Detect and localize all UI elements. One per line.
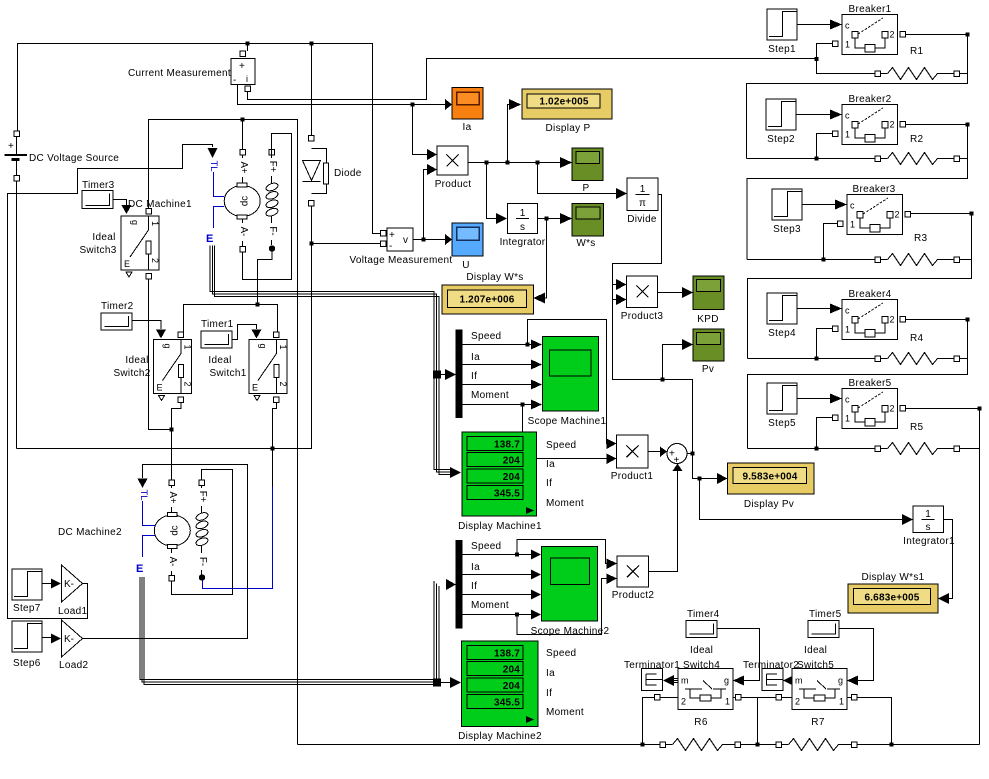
svg-text:Step6: Step6 bbox=[13, 658, 41, 669]
port Breaker1 out bbox=[900, 32, 906, 38]
svg-text:R4: R4 bbox=[910, 333, 924, 344]
svg-text:Scope Machine1: Scope Machine1 bbox=[528, 416, 607, 427]
label F+ machine1 bbox=[266, 158, 278, 176]
svg-text:1: 1 bbox=[925, 509, 931, 520]
svg-text:Pv: Pv bbox=[702, 364, 714, 375]
display block Display Machine1 bbox=[462, 432, 537, 516]
signal bundle machine1 down to display1 bbox=[434, 379, 450, 475]
wire Step3 to Breaker3 bbox=[802, 204, 835, 206]
label demux1 Ia bbox=[471, 352, 480, 363]
wire bundle up to demux2 bbox=[434, 581, 450, 683]
wire Switch5 port1 to bus bbox=[847, 698, 892, 745]
step block Step6 bbox=[12, 621, 42, 652]
label A+ machine2 bbox=[166, 488, 178, 507]
label E machine2 bbox=[136, 563, 143, 575]
svg-text:204: 204 bbox=[503, 681, 521, 692]
wire blue field return machine2 bbox=[203, 487, 273, 589]
wire Timer4 to Switch4 g bbox=[717, 629, 760, 681]
svg-text:If: If bbox=[546, 688, 552, 699]
port Breaker5 out bbox=[900, 406, 906, 412]
demux1 output wire Ia bbox=[463, 364, 532, 366]
arrow into Product1 in1 bbox=[607, 439, 617, 450]
port switch2 port1 bbox=[178, 332, 184, 338]
wire Step7 to Load1 bbox=[42, 583, 51, 585]
label Timer1 bbox=[201, 319, 234, 330]
wire down to Display Ws bbox=[542, 219, 547, 299]
scope block Pv bbox=[693, 329, 724, 361]
node junction A+ tap machine1 bbox=[241, 118, 245, 122]
arrow into sum left bbox=[660, 447, 667, 458]
wire Breaker4 out loop to row5 bbox=[748, 320, 968, 449]
svg-text:Ideal: Ideal bbox=[690, 645, 713, 656]
signal bundle machine1 m output bbox=[210, 246, 439, 371]
node junction sum out bbox=[691, 452, 695, 456]
svg-text:A+: A+ bbox=[167, 491, 178, 503]
svg-text:Ia: Ia bbox=[471, 352, 480, 363]
wire bundle to demux1 bbox=[441, 374, 446, 376]
label demux2 If bbox=[471, 581, 477, 592]
scope block U bbox=[452, 223, 483, 256]
svg-text:F+: F+ bbox=[197, 491, 208, 503]
wire Step4 to Breaker4 bbox=[797, 308, 830, 310]
svg-text:+: + bbox=[389, 230, 395, 241]
svg-text:E: E bbox=[206, 233, 213, 245]
port Switch5 port1 bbox=[852, 695, 858, 701]
label Ia scope bbox=[463, 122, 472, 133]
svg-text:Ideal: Ideal bbox=[125, 355, 148, 366]
label R2 bbox=[910, 134, 924, 145]
voltage measurement block VM bbox=[387, 228, 413, 252]
svg-text:Product1: Product1 bbox=[611, 471, 654, 482]
svg-text:Timer4: Timer4 bbox=[687, 609, 720, 620]
svg-text:If: If bbox=[546, 478, 552, 489]
svg-text:U: U bbox=[462, 260, 470, 271]
svg-text:Step4: Step4 bbox=[768, 328, 796, 339]
scope block KPD bbox=[693, 276, 724, 310]
arrow into Product1 in2 bbox=[607, 454, 617, 465]
svg-text:Timer3: Timer3 bbox=[82, 180, 115, 191]
node junction breaker2 corner bbox=[966, 123, 970, 127]
port Breaker3 out bbox=[905, 212, 911, 218]
label R3 bbox=[914, 233, 928, 244]
svg-text:Ia: Ia bbox=[471, 562, 480, 573]
label Ideal Switch3 bbox=[79, 232, 116, 256]
breaker block Breaker1 bbox=[842, 15, 898, 55]
svg-text:DC Voltage Source: DC Voltage Source bbox=[29, 153, 119, 164]
node junction gate line bbox=[256, 303, 260, 307]
wire Step6 to Load2 bbox=[42, 637, 51, 639]
arrow into Product2 in2 bbox=[607, 574, 618, 585]
label A- machine2 bbox=[166, 553, 178, 571]
resistor R6 bbox=[660, 739, 741, 751]
ideal switch3 bbox=[121, 216, 160, 277]
label col2 Ia machine2 bbox=[546, 668, 555, 679]
wire Moment under scope2 to Product2 in2 bbox=[517, 579, 607, 635]
label Step7 bbox=[13, 603, 41, 614]
label Display Machine2 bbox=[458, 731, 542, 742]
scope block Scope Machine2 bbox=[542, 547, 598, 622]
label Ws scope bbox=[576, 238, 595, 249]
wire gate line to switch1 and switch2 port1 bbox=[184, 305, 278, 332]
wire node vertical Pv branch bbox=[613, 285, 693, 454]
step block Step2 bbox=[766, 99, 796, 130]
port Switch5 port2 bbox=[776, 695, 782, 701]
scope block P bbox=[572, 148, 603, 181]
label col2 Speed machine2 bbox=[546, 648, 576, 659]
label Divide bbox=[627, 214, 657, 225]
node junction CM top on bus bbox=[246, 42, 250, 46]
label demux2 Moment bbox=[471, 600, 509, 611]
label Timer3 bbox=[82, 180, 115, 191]
svg-text:DC Machine1: DC Machine1 bbox=[128, 199, 192, 210]
label Voltage Measurement bbox=[350, 255, 453, 266]
dc machine1 armature circle bbox=[224, 183, 260, 219]
ideal switch2 bbox=[154, 340, 193, 401]
svg-text:Integrator: Integrator bbox=[500, 237, 546, 248]
arrow into Breaker2 c bbox=[830, 110, 842, 120]
wire Switch5 port2 to bus bbox=[758, 697, 793, 699]
svg-text:Timer2: Timer2 bbox=[101, 301, 134, 312]
timer block Timer2 bbox=[101, 313, 132, 330]
svg-text:Speed: Speed bbox=[471, 541, 501, 552]
svg-text:Switch5: Switch5 bbox=[797, 660, 834, 671]
svg-text:Step1: Step1 bbox=[768, 44, 796, 55]
arrow into Product in1 bbox=[427, 149, 437, 160]
svg-text:Load1: Load1 bbox=[58, 606, 87, 617]
arrow into Breaker1 c bbox=[830, 20, 842, 30]
demux2 output wire If bbox=[463, 594, 532, 596]
svg-text:-: - bbox=[389, 241, 393, 252]
svg-text:Ia: Ia bbox=[546, 668, 555, 679]
product block Product bbox=[437, 146, 468, 175]
wire switch3 port2 to machine2 A+ bbox=[149, 279, 172, 481]
demux2 output wire Moment bbox=[463, 614, 532, 616]
wire up to Pv scope bbox=[663, 345, 683, 380]
label TL machine2 bbox=[138, 489, 149, 500]
arrow into Product3 in2 bbox=[616, 294, 627, 305]
arrow into Breaker5 c bbox=[830, 394, 842, 404]
timer block Timer1 bbox=[201, 331, 232, 348]
node F- machine2 dot bbox=[199, 574, 205, 580]
wire Load1 to TL machine1 long loop bbox=[8, 145, 213, 619]
port Switch4 port1 bbox=[736, 695, 742, 701]
wire A+ machine1 stub bbox=[242, 120, 244, 151]
wire down to Integrator bbox=[487, 163, 497, 219]
arrow into KPD bbox=[682, 287, 693, 298]
svg-text:+: + bbox=[674, 455, 680, 466]
divide block Divide bbox=[627, 178, 658, 211]
label Timer5 bbox=[809, 609, 842, 620]
svg-text:Terminator2: Terminator2 bbox=[743, 660, 799, 671]
port Breaker4 out bbox=[900, 317, 906, 323]
wire Product2 out to sum bottom bbox=[649, 471, 678, 572]
svg-text:A-: A- bbox=[238, 227, 249, 237]
wire bottom bus left segment bbox=[298, 744, 661, 746]
node junction breaker2 chain bbox=[815, 157, 819, 161]
label Pv bbox=[702, 364, 714, 375]
svg-text:Timer1: Timer1 bbox=[201, 319, 234, 330]
wire Breaker5 port1 bbox=[817, 418, 833, 449]
label Terminator2 bbox=[743, 660, 799, 671]
step block Step5 bbox=[767, 383, 797, 414]
node junction VM out tap bbox=[422, 238, 426, 242]
svg-text:Step7: Step7 bbox=[13, 603, 41, 614]
svg-text:R7: R7 bbox=[811, 717, 825, 728]
port A+ machine1 bbox=[240, 150, 246, 156]
label Terminator1 bbox=[624, 660, 680, 671]
svg-text:R5: R5 bbox=[910, 422, 924, 433]
wire Product1 out to sum bbox=[648, 451, 660, 453]
label E machine1 bbox=[206, 233, 213, 245]
wire Breaker5 out down right edge bbox=[906, 409, 980, 745]
wire machine1 top bus A+ feed bbox=[149, 120, 298, 745]
wire Breaker2 out loop to row3 bbox=[747, 125, 968, 260]
arrow into Display Machine1 bbox=[450, 467, 461, 478]
node junction breaker3 chain bbox=[822, 258, 826, 262]
svg-text:s: s bbox=[926, 522, 931, 533]
svg-text:Load2: Load2 bbox=[59, 660, 88, 671]
step block Step1 bbox=[767, 9, 797, 40]
label R1 bbox=[910, 46, 924, 57]
step block Step7 bbox=[12, 569, 42, 600]
arrow into Pv scope bbox=[682, 339, 693, 350]
arrow into Load2 bbox=[51, 634, 61, 644]
node junction Pv tap bbox=[661, 378, 665, 382]
label TL machine1 bbox=[208, 160, 219, 171]
wire chain row2 horizontal bbox=[747, 158, 875, 160]
port A- machine1 bbox=[240, 247, 246, 253]
svg-text:Switch3: Switch3 bbox=[79, 245, 116, 256]
label Display Ws title bbox=[466, 272, 523, 283]
field coil machine1 bbox=[265, 155, 279, 246]
timer block Timer4 bbox=[686, 621, 717, 638]
product block Product1 bbox=[617, 435, 649, 468]
svg-text:204: 204 bbox=[503, 472, 521, 483]
timer block Timer3 bbox=[82, 191, 113, 209]
svg-text:DC Machine2: DC Machine2 bbox=[58, 527, 122, 538]
label Step1 bbox=[768, 44, 796, 55]
wire Timer1 to Switch1 gate bbox=[232, 325, 257, 340]
label col2 If machine2 bbox=[546, 688, 552, 699]
wire bottom bus mid segment bbox=[741, 744, 777, 746]
label KPD bbox=[697, 314, 718, 325]
ideal switch5 bbox=[792, 669, 847, 710]
wire Step2 to Breaker2 bbox=[796, 114, 830, 116]
arrow into Integrator1 bbox=[902, 514, 913, 525]
wire node down to Display Pv bbox=[693, 454, 718, 479]
display block Display Ws bbox=[442, 285, 534, 314]
wire Timer2 to Switch2 gate bbox=[132, 321, 161, 330]
port F+ machine2 bbox=[199, 480, 205, 486]
svg-text:138.7: 138.7 bbox=[494, 440, 520, 451]
label R5 bbox=[910, 422, 924, 433]
node junction Display Ws tap bbox=[545, 217, 549, 221]
port Breaker4 port1 bbox=[833, 326, 839, 332]
svg-text:Speed: Speed bbox=[546, 648, 576, 659]
label col2 Ia machine1 bbox=[546, 459, 555, 470]
label Step4 bbox=[768, 328, 796, 339]
wire A+ into circle bbox=[242, 155, 244, 184]
node junction switch5 port1 bus bbox=[890, 743, 894, 747]
wire switch1 port2 down to bus and machine2 field bbox=[273, 403, 277, 487]
wire node to Integrator1 bbox=[700, 479, 903, 520]
wire Switch4 port2 to bus bbox=[643, 698, 679, 745]
wire Breaker3 port1 bbox=[824, 224, 838, 260]
svg-text:Ia: Ia bbox=[463, 122, 472, 133]
label Display Pv bbox=[744, 499, 794, 510]
svg-text:R6: R6 bbox=[694, 717, 708, 728]
arrow into Switch3 g bbox=[122, 205, 132, 214]
wire sum out to node bbox=[687, 453, 693, 455]
label Integrator1 bbox=[903, 536, 955, 547]
arrow into Breaker3 c bbox=[835, 200, 847, 210]
wire Breaker3 out loop to row4 bbox=[748, 214, 972, 359]
svg-text:Display W*s: Display W*s bbox=[466, 272, 523, 283]
svg-text:Divide: Divide bbox=[627, 214, 657, 225]
wire Switch4 port1 to bus bbox=[733, 698, 758, 745]
svg-text:TL: TL bbox=[138, 489, 149, 500]
demux1 output wire If bbox=[463, 384, 532, 386]
arrow into Display Ws right side bbox=[534, 293, 546, 304]
arrow into Ws scope bbox=[560, 213, 572, 224]
svg-text:Moment: Moment bbox=[471, 390, 509, 401]
svg-text:Moment: Moment bbox=[546, 707, 584, 718]
node junction diode top on bus bbox=[310, 42, 314, 46]
wire Product3 out to KPD bbox=[658, 292, 682, 294]
port switch1 port2 bbox=[274, 397, 280, 403]
port Switch4 port2 bbox=[654, 695, 660, 701]
wire Step5 to Breaker5 bbox=[797, 398, 830, 400]
resistor R7 bbox=[776, 739, 857, 751]
gain block Load2 bbox=[62, 620, 83, 657]
node junction Integrator tap bbox=[485, 161, 489, 165]
breaker block Breaker5 bbox=[842, 389, 898, 429]
svg-text:F+: F+ bbox=[267, 161, 278, 173]
wire VM minus input bbox=[312, 243, 382, 245]
label Scope Machine1 bbox=[528, 416, 607, 427]
scope block Ia bbox=[452, 88, 483, 120]
wire blue E bracket machine1 bbox=[214, 207, 225, 229]
svg-text:A+: A+ bbox=[238, 161, 249, 173]
wire Switch4 m to Terminator1 bbox=[663, 675, 678, 686]
arrow into Product in2 bbox=[427, 164, 437, 175]
svg-text:Breaker3: Breaker3 bbox=[853, 184, 896, 195]
arrow into Breaker4 c bbox=[830, 304, 842, 314]
label A- machine1 bbox=[237, 223, 249, 241]
port Breaker1 port1 bbox=[833, 41, 839, 47]
svg-text:TL: TL bbox=[208, 160, 219, 171]
breaker block Breaker3 bbox=[847, 195, 903, 235]
node junction switch2 port2 meet bbox=[170, 428, 174, 432]
port diode top bbox=[309, 136, 315, 142]
label F- machine1 bbox=[266, 223, 278, 240]
svg-text:i: i bbox=[246, 74, 248, 84]
svg-text:Step3: Step3 bbox=[773, 224, 801, 235]
port A- machine2 bbox=[169, 576, 175, 582]
label demux1 Moment bbox=[471, 390, 509, 401]
product block Product2 bbox=[617, 556, 649, 587]
port DC source bottom bbox=[14, 176, 20, 182]
port Breaker5 port1 bbox=[833, 415, 839, 421]
label col2 Moment machine2 bbox=[546, 707, 584, 718]
arrow into demux2 bbox=[446, 579, 456, 590]
ideal switch1 bbox=[249, 340, 288, 401]
port switch3 port1 bbox=[146, 209, 152, 215]
demux2 output wire Speed bbox=[463, 554, 532, 556]
node junction switch4 port2 bus bbox=[641, 743, 645, 747]
wire VM output to U scope and Product in2 bbox=[413, 239, 445, 241]
arrow into Ia scope bbox=[445, 99, 452, 110]
demux bar machine1 bbox=[456, 330, 463, 419]
display block Display Ws1 bbox=[848, 584, 938, 613]
wire DC source minus down to lower bus bbox=[16, 181, 18, 449]
display block Display P bbox=[522, 89, 612, 119]
node bundle branch blob machine2 bbox=[433, 679, 441, 687]
wire Product3 in2 stub bbox=[613, 299, 617, 301]
port CM top bbox=[240, 51, 246, 57]
wire A- to F+ series link machine2 bbox=[172, 470, 233, 595]
label Integrator bbox=[500, 237, 546, 248]
svg-text:Scope Machine2: Scope Machine2 bbox=[531, 626, 610, 637]
label Breaker3 bbox=[853, 184, 896, 195]
svg-text:Breaker1: Breaker1 bbox=[849, 4, 892, 15]
svg-text:Timer5: Timer5 bbox=[809, 609, 842, 620]
port VM minus bbox=[381, 241, 387, 247]
terminator block Terminator1 bbox=[642, 669, 663, 691]
svg-text:K-: K- bbox=[64, 634, 74, 645]
arrow into P scope bbox=[560, 157, 572, 168]
timer block Timer5 bbox=[808, 621, 839, 638]
node junction Integrator1 tap bbox=[698, 477, 702, 481]
terminator block Terminator2 bbox=[762, 669, 783, 691]
label Product bbox=[435, 179, 472, 190]
arrow into Divide bbox=[616, 188, 627, 199]
label Diode bbox=[334, 168, 362, 179]
svg-text:Ideal: Ideal bbox=[804, 645, 827, 656]
node junction breaker5 chain bbox=[815, 447, 819, 451]
wire Integrator out to Ws scope bbox=[538, 218, 560, 220]
node junction Speed tap machine2 bbox=[515, 553, 519, 557]
label Display P bbox=[546, 123, 591, 134]
resistor R5 bbox=[875, 443, 980, 455]
svg-text:204: 204 bbox=[503, 665, 521, 676]
svg-text:345.5: 345.5 bbox=[494, 489, 520, 500]
svg-text:Step2: Step2 bbox=[767, 134, 795, 145]
arrow TL machine1 bbox=[208, 148, 218, 158]
breaker block Breaker4 bbox=[842, 300, 898, 340]
port Breaker2 out bbox=[900, 122, 906, 128]
node junction breaker4 chain bbox=[815, 357, 819, 361]
arrow into Display P bbox=[509, 99, 521, 110]
svg-text:138.7: 138.7 bbox=[494, 649, 520, 660]
scope block Scope Machine1 bbox=[543, 337, 599, 412]
resistor R3 bbox=[875, 254, 972, 266]
arrows into Scope Machine2 bbox=[531, 550, 541, 620]
svg-text:Display Machine1: Display Machine1 bbox=[458, 521, 542, 532]
label Ideal Switch5 bbox=[797, 645, 834, 671]
label demux1 Speed bbox=[471, 331, 501, 342]
step block Step3 bbox=[772, 189, 802, 220]
label R7 bbox=[811, 717, 825, 728]
label Step5 bbox=[768, 418, 796, 429]
svg-text:Display Pv: Display Pv bbox=[744, 499, 794, 510]
label U scope bbox=[462, 260, 470, 271]
resistor R1 bbox=[875, 68, 968, 80]
svg-text:R2: R2 bbox=[910, 134, 924, 145]
node junction Moment tap machine1 bbox=[521, 403, 525, 407]
node junction switch4 port1 bus bbox=[756, 743, 760, 747]
svg-text:Ideal: Ideal bbox=[208, 355, 231, 366]
